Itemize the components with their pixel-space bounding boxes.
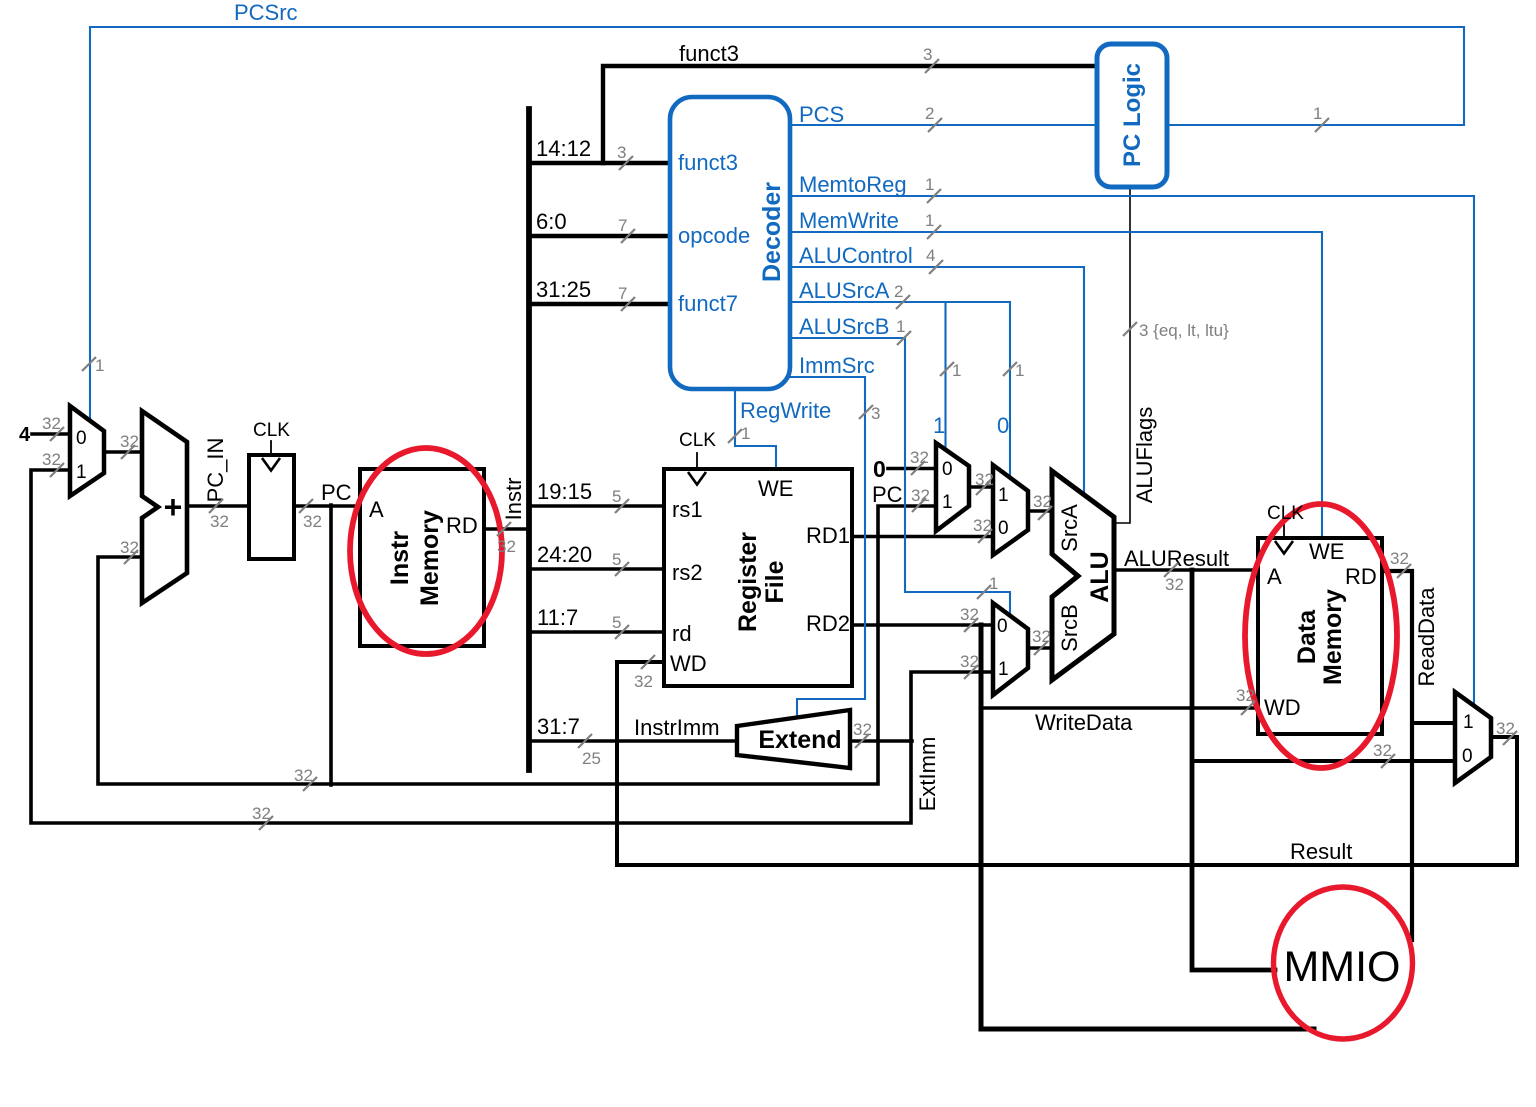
svg-text:4: 4 [926,246,935,265]
svg-text:1: 1 [933,413,945,438]
svg-text:32: 32 [42,450,61,469]
svg-text:funct3: funct3 [678,150,738,175]
svg-text:3 {eq, lt, ltu}: 3 {eq, lt, ltu} [1139,321,1229,340]
svg-text:SrcB: SrcB [1057,604,1082,652]
svg-text:RD2: RD2 [806,611,850,636]
svg-text:rd: rd [672,621,692,646]
svg-text:PCSrc: PCSrc [234,0,298,25]
svg-text:14:12: 14:12 [536,136,591,161]
svg-text:0: 0 [873,456,886,482]
svg-text:Memory: Memory [416,510,444,606]
svg-text:19:15: 19:15 [537,479,592,504]
svg-text:0: 0 [76,428,87,449]
svg-text:6:0: 6:0 [536,209,567,234]
svg-text:1: 1 [998,485,1009,506]
svg-text:1: 1 [998,659,1009,680]
svg-text:1: 1 [76,462,87,483]
svg-text:WriteData: WriteData [1035,710,1133,735]
svg-text:MemWrite: MemWrite [799,208,899,233]
svg-text:1: 1 [1313,104,1322,123]
svg-text:CLK: CLK [253,420,290,441]
svg-text:Register: Register [734,532,762,632]
svg-text:A: A [369,497,384,522]
svg-text:4: 4 [19,424,31,446]
svg-text:25: 25 [582,749,601,768]
svg-text:32: 32 [911,486,930,505]
svg-text:1: 1 [741,424,750,443]
svg-text:WE: WE [758,476,793,501]
svg-text:24:20: 24:20 [537,542,592,567]
svg-text:0: 0 [997,413,1009,438]
svg-text:1: 1 [1015,361,1024,380]
svg-text:3: 3 [617,143,626,162]
svg-text:32: 32 [120,538,139,557]
svg-text:2: 2 [894,282,903,301]
svg-text:ALU: ALU [1086,551,1114,602]
svg-text:32: 32 [1165,575,1184,594]
svg-text:ExtImm: ExtImm [915,737,940,812]
svg-text:2: 2 [925,104,934,123]
svg-text:32: 32 [634,672,653,691]
svg-text:7: 7 [618,216,627,235]
svg-text:ALUFlags: ALUFlags [1132,407,1157,504]
svg-text:5: 5 [612,550,621,569]
svg-text:32: 32 [252,804,271,823]
svg-text:RD1: RD1 [806,523,850,548]
svg-text:7: 7 [618,284,627,303]
svg-text:PC: PC [872,482,903,507]
svg-text:1: 1 [1463,712,1474,733]
svg-text:SrcA: SrcA [1057,504,1082,552]
svg-text:WE: WE [1309,539,1344,564]
svg-text:32: 32 [1496,719,1515,738]
svg-text:ALUSrcB: ALUSrcB [799,314,889,339]
svg-text:32: 32 [497,537,516,556]
svg-text:32: 32 [975,470,994,489]
svg-text:ImmSrc: ImmSrc [799,353,875,378]
svg-text:funct3: funct3 [679,41,739,66]
svg-text:32: 32 [210,512,229,531]
svg-text:MemtoReg: MemtoReg [799,172,907,197]
svg-text:5: 5 [612,613,621,632]
svg-text:32: 32 [1390,549,1409,568]
svg-text:Data: Data [1293,609,1321,664]
svg-text:32: 32 [1373,741,1392,760]
svg-text:Result: Result [1290,839,1352,864]
svg-text:1: 1 [95,356,104,375]
svg-text:32: 32 [973,516,992,535]
svg-text:funct7: funct7 [678,291,738,316]
svg-text:1: 1 [952,361,961,380]
svg-text:32: 32 [960,605,979,624]
svg-text:RD: RD [1345,564,1377,589]
svg-text:32: 32 [853,720,872,739]
svg-text:File: File [761,560,789,603]
svg-text:ALUResult: ALUResult [1124,546,1229,571]
svg-text:1: 1 [925,175,934,194]
svg-text:32: 32 [1033,492,1052,511]
svg-text:32: 32 [42,414,61,433]
svg-text:CLK: CLK [679,430,716,451]
svg-text:Memory: Memory [1319,589,1347,685]
svg-text:WD: WD [1264,695,1301,720]
svg-text:32: 32 [294,766,313,785]
svg-text:32: 32 [120,432,139,451]
svg-text:1: 1 [925,211,934,230]
svg-text:PC_IN: PC_IN [203,438,228,503]
svg-text:RD: RD [446,513,478,538]
svg-text:0: 0 [942,459,953,480]
svg-text:InstrImm: InstrImm [634,715,720,740]
svg-text:PC: PC [321,480,352,505]
svg-text:rs2: rs2 [672,560,703,585]
svg-text:0: 0 [997,616,1008,637]
svg-text:Instr: Instr [501,478,526,521]
svg-text:11:7: 11:7 [537,605,578,630]
svg-text:MMIO: MMIO [1283,943,1400,991]
svg-text:32: 32 [1236,686,1255,705]
svg-text:opcode: opcode [678,223,750,248]
svg-text:5: 5 [612,487,621,506]
svg-text:31:25: 31:25 [536,277,591,302]
svg-text:Instr: Instr [386,531,414,585]
svg-text:0: 0 [1462,746,1473,767]
svg-text:1: 1 [896,317,905,336]
svg-text:PCS: PCS [799,102,844,127]
svg-text:Decoder: Decoder [758,182,786,282]
svg-text:1: 1 [942,492,953,513]
svg-text:32: 32 [960,652,979,671]
svg-text:1: 1 [989,574,998,593]
svg-text:CLK: CLK [1267,503,1304,524]
svg-text:WD: WD [670,651,707,676]
svg-text:rs1: rs1 [672,497,703,522]
svg-text:32: 32 [910,448,929,467]
svg-text:Extend: Extend [758,726,841,754]
svg-text:0: 0 [998,518,1009,539]
svg-text:32: 32 [1032,627,1051,646]
svg-text:+: + [164,489,183,525]
svg-text:A: A [1267,564,1282,589]
svg-text:RegWrite: RegWrite [740,398,831,423]
svg-text:3: 3 [871,404,880,423]
svg-text:ALUSrcA: ALUSrcA [799,278,890,303]
svg-text:ALUControl: ALUControl [799,243,913,268]
svg-text:32: 32 [303,512,322,531]
svg-text:31:7: 31:7 [537,714,580,739]
svg-text:ReadData: ReadData [1414,587,1439,687]
svg-text:3: 3 [923,45,932,64]
svg-text:PC Logic: PC Logic [1119,63,1146,167]
